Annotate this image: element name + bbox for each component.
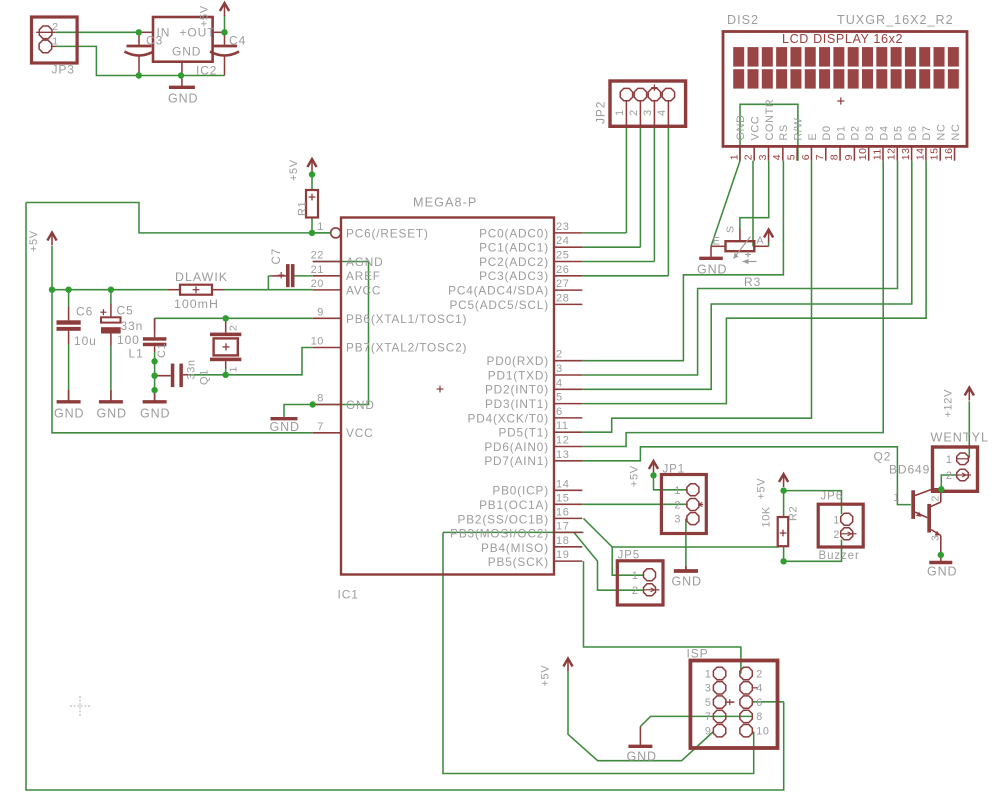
- svg-text:8: 8: [317, 393, 324, 405]
- svg-text:PD3(INT1): PD3(INT1): [485, 397, 549, 411]
- svg-text:10K: 10K: [761, 506, 773, 527]
- svg-text:R2: R2: [788, 506, 800, 521]
- svg-text:GND: GND: [697, 263, 727, 277]
- svg-text:1: 1: [893, 492, 900, 504]
- svg-text:VCC: VCC: [346, 426, 373, 440]
- svg-text:27: 27: [556, 278, 569, 290]
- svg-text:JP6: JP6: [821, 491, 844, 503]
- svg-text:DLAWIK: DLAWIK: [175, 270, 228, 284]
- svg-text:E: E: [713, 235, 721, 247]
- svg-text:+5V: +5V: [288, 159, 300, 181]
- svg-text:LCD DISPLAY 16x2: LCD DISPLAY 16x2: [782, 32, 903, 46]
- svg-text:3: 3: [930, 535, 942, 541]
- svg-text:4: 4: [771, 154, 783, 160]
- svg-text:GND: GND: [735, 114, 747, 140]
- svg-text:100mH: 100mH: [174, 297, 219, 311]
- svg-text:GND: GND: [168, 92, 198, 106]
- svg-text:AVCC: AVCC: [346, 284, 381, 298]
- svg-text:4: 4: [556, 377, 563, 389]
- svg-text:PC0(ADC0): PC0(ADC0): [479, 226, 549, 240]
- svg-text:PD6(AIN0): PD6(AIN0): [484, 440, 549, 454]
- svg-text:2: 2: [556, 349, 563, 361]
- svg-text:WENTYL: WENTYL: [931, 431, 989, 445]
- svg-text:IC2: IC2: [196, 64, 217, 78]
- svg-text:R1: R1: [297, 201, 309, 216]
- svg-text:10: 10: [857, 147, 869, 160]
- svg-text:AGND: AGND: [346, 255, 383, 269]
- svg-text:GND: GND: [172, 45, 201, 59]
- svg-text:8: 8: [756, 711, 763, 723]
- svg-text:R/W: R/W: [792, 117, 804, 140]
- svg-text:+5V: +5V: [28, 230, 40, 252]
- svg-text:17: 17: [556, 520, 569, 532]
- svg-text:JP5: JP5: [618, 550, 641, 562]
- svg-text:5: 5: [556, 392, 563, 404]
- svg-text:D6: D6: [907, 125, 919, 140]
- svg-text:D3: D3: [864, 125, 876, 140]
- svg-text:PB7(XTAL2/TOSC2): PB7(XTAL2/TOSC2): [346, 341, 467, 355]
- svg-text:2: 2: [674, 500, 681, 512]
- svg-text:GND: GND: [97, 407, 127, 421]
- svg-text:9: 9: [317, 307, 324, 319]
- svg-text:PD1(TXD): PD1(TXD): [488, 368, 549, 382]
- svg-text:19: 19: [556, 549, 569, 561]
- svg-text:10: 10: [311, 335, 324, 347]
- svg-text:PD2(INT0): PD2(INT0): [485, 383, 549, 397]
- svg-text:7: 7: [814, 154, 826, 160]
- svg-text:2: 2: [52, 21, 58, 33]
- svg-text:26: 26: [556, 264, 569, 276]
- svg-text:+12V: +12V: [943, 389, 955, 417]
- svg-text:JP2: JP2: [594, 101, 608, 124]
- svg-text:2: 2: [228, 325, 240, 331]
- svg-text:JP3: JP3: [52, 62, 75, 76]
- svg-text:1: 1: [228, 366, 240, 372]
- svg-text:PD4(XCK/T0): PD4(XCK/T0): [468, 411, 549, 425]
- svg-text:IN: IN: [157, 25, 171, 39]
- svg-text:JP1: JP1: [663, 464, 686, 476]
- svg-text:Buzzer: Buzzer: [819, 550, 860, 562]
- svg-text:1: 1: [52, 36, 58, 48]
- svg-text:15: 15: [929, 147, 941, 160]
- svg-text:10: 10: [756, 726, 769, 738]
- svg-text:PC4(ADC4/SDA): PC4(ADC4/SDA): [448, 284, 549, 298]
- svg-text:13: 13: [556, 449, 569, 461]
- svg-text:1: 1: [728, 154, 740, 160]
- svg-text:PC2(ADC2): PC2(ADC2): [479, 255, 549, 269]
- svg-text:NC: NC: [936, 124, 948, 141]
- svg-text:4: 4: [756, 683, 763, 695]
- svg-text:MEGA8-P: MEGA8-P: [413, 196, 477, 210]
- svg-text:PC1(ADC1): PC1(ADC1): [479, 241, 549, 255]
- svg-text:TUXGR_16X2_R2: TUXGR_16X2_R2: [837, 13, 954, 27]
- svg-text:S: S: [725, 225, 737, 233]
- svg-text:PB0(ICP): PB0(ICP): [492, 484, 549, 498]
- svg-text:22: 22: [311, 250, 324, 262]
- svg-text:D1: D1: [835, 125, 847, 140]
- svg-text:2: 2: [628, 109, 640, 116]
- svg-text:GND: GND: [927, 565, 957, 579]
- svg-text:RS: RS: [778, 124, 790, 140]
- svg-text:3: 3: [674, 514, 681, 526]
- svg-text:24: 24: [556, 235, 569, 247]
- svg-text:7: 7: [317, 421, 324, 433]
- svg-text:PC3(ADC3): PC3(ADC3): [479, 269, 549, 283]
- svg-text:2: 2: [743, 154, 755, 160]
- svg-text:D2: D2: [850, 125, 862, 140]
- svg-text:28: 28: [556, 292, 569, 304]
- svg-text:PB2(SS/OC1B): PB2(SS/OC1B): [458, 512, 550, 526]
- svg-text:6: 6: [756, 697, 763, 709]
- svg-text:21: 21: [311, 264, 324, 276]
- svg-text:+5V: +5V: [629, 465, 641, 487]
- svg-text:1: 1: [632, 570, 639, 582]
- svg-text:Q1: Q1: [199, 369, 211, 385]
- svg-text:C7: C7: [271, 248, 283, 265]
- svg-text:1: 1: [674, 485, 681, 497]
- svg-text:DIS2: DIS2: [727, 13, 759, 27]
- svg-text:PD5(T1): PD5(T1): [498, 426, 549, 440]
- svg-text:3: 3: [642, 109, 654, 116]
- svg-text:3: 3: [556, 363, 563, 375]
- svg-text:D0: D0: [821, 125, 833, 140]
- svg-text:PB5(SCK): PB5(SCK): [488, 555, 549, 569]
- svg-text:PB1(OC1A): PB1(OC1A): [479, 498, 549, 512]
- svg-text:16: 16: [556, 506, 569, 518]
- svg-text:2: 2: [632, 585, 639, 597]
- svg-text:12: 12: [556, 435, 569, 447]
- svg-text:4: 4: [656, 109, 668, 116]
- svg-text:1: 1: [614, 109, 626, 116]
- svg-text:D4: D4: [878, 125, 890, 140]
- svg-text:D7: D7: [921, 125, 933, 140]
- svg-text:E: E: [807, 133, 819, 141]
- svg-text:16: 16: [943, 147, 955, 160]
- svg-text:2: 2: [833, 529, 840, 541]
- svg-text:33n: 33n: [186, 359, 198, 379]
- svg-text:A: A: [757, 235, 765, 247]
- svg-text:15: 15: [556, 492, 569, 504]
- svg-text:14: 14: [914, 147, 926, 160]
- svg-text:5: 5: [786, 154, 798, 160]
- svg-text:L1: L1: [129, 347, 144, 361]
- svg-text:11: 11: [556, 420, 569, 432]
- svg-text:18: 18: [556, 535, 569, 547]
- svg-text:12: 12: [886, 147, 898, 160]
- svg-text:C1: C1: [156, 343, 168, 358]
- svg-text:1: 1: [946, 454, 953, 466]
- svg-text:14: 14: [556, 478, 569, 490]
- svg-text:3: 3: [757, 154, 769, 160]
- svg-text:GND: GND: [270, 420, 300, 434]
- svg-text:5: 5: [705, 697, 712, 709]
- svg-text:3: 3: [705, 683, 712, 695]
- svg-text:+5V: +5V: [199, 5, 211, 27]
- svg-text:9: 9: [705, 726, 712, 738]
- svg-text:R3: R3: [744, 275, 761, 289]
- svg-text:6: 6: [556, 406, 563, 418]
- svg-text:GND: GND: [346, 398, 375, 412]
- svg-text:D5: D5: [893, 125, 905, 140]
- svg-text:NC: NC: [950, 124, 962, 141]
- svg-text:GND: GND: [140, 407, 170, 421]
- svg-text:23: 23: [556, 221, 569, 233]
- svg-text:C5: C5: [117, 303, 134, 317]
- svg-text:PC5(ADC5/SCL): PC5(ADC5/SCL): [449, 298, 549, 312]
- svg-text:6: 6: [800, 154, 812, 160]
- svg-text:VCC: VCC: [750, 116, 762, 141]
- svg-text:+5V: +5V: [540, 665, 552, 687]
- svg-text:CONTR: CONTR: [764, 99, 776, 141]
- svg-text:13: 13: [900, 147, 912, 160]
- svg-text:+5V: +5V: [756, 478, 768, 500]
- svg-text:2: 2: [930, 495, 942, 501]
- svg-text:IC1: IC1: [338, 588, 359, 602]
- svg-text:100: 100: [117, 333, 140, 347]
- svg-text:PB6(XTAL1/TOSC1): PB6(XTAL1/TOSC1): [346, 312, 467, 326]
- svg-text:25: 25: [556, 250, 569, 262]
- svg-text:1: 1: [317, 221, 324, 233]
- svg-text:PB3(MOSI/OC2): PB3(MOSI/OC2): [450, 527, 549, 541]
- svg-text:C4: C4: [229, 33, 246, 47]
- svg-text:9: 9: [843, 154, 855, 160]
- svg-text:BD649: BD649: [889, 463, 930, 477]
- svg-text:GND: GND: [54, 407, 84, 421]
- svg-text:PD0(RXD): PD0(RXD): [486, 354, 549, 368]
- svg-text:11: 11: [871, 148, 883, 160]
- svg-text:2: 2: [756, 668, 763, 680]
- svg-text:33n: 33n: [121, 319, 144, 333]
- svg-text:2: 2: [946, 470, 953, 482]
- svg-text:PD7(AIN1): PD7(AIN1): [484, 454, 549, 468]
- svg-text:1: 1: [705, 668, 712, 680]
- svg-text:7: 7: [705, 711, 712, 723]
- svg-text:10u: 10u: [74, 334, 97, 348]
- svg-text:8: 8: [828, 154, 840, 160]
- svg-text:AREF: AREF: [346, 269, 381, 283]
- svg-text:PC6(/RESET): PC6(/RESET): [346, 226, 429, 240]
- svg-text:GND: GND: [627, 750, 657, 764]
- svg-text:C6: C6: [76, 304, 93, 318]
- svg-text:GND: GND: [672, 575, 702, 589]
- svg-text:20: 20: [311, 278, 324, 290]
- svg-text:ISP: ISP: [687, 647, 709, 661]
- svg-text:PB4(MISO): PB4(MISO): [481, 541, 549, 555]
- svg-text:1: 1: [833, 515, 840, 527]
- svg-text:Q2: Q2: [874, 450, 892, 464]
